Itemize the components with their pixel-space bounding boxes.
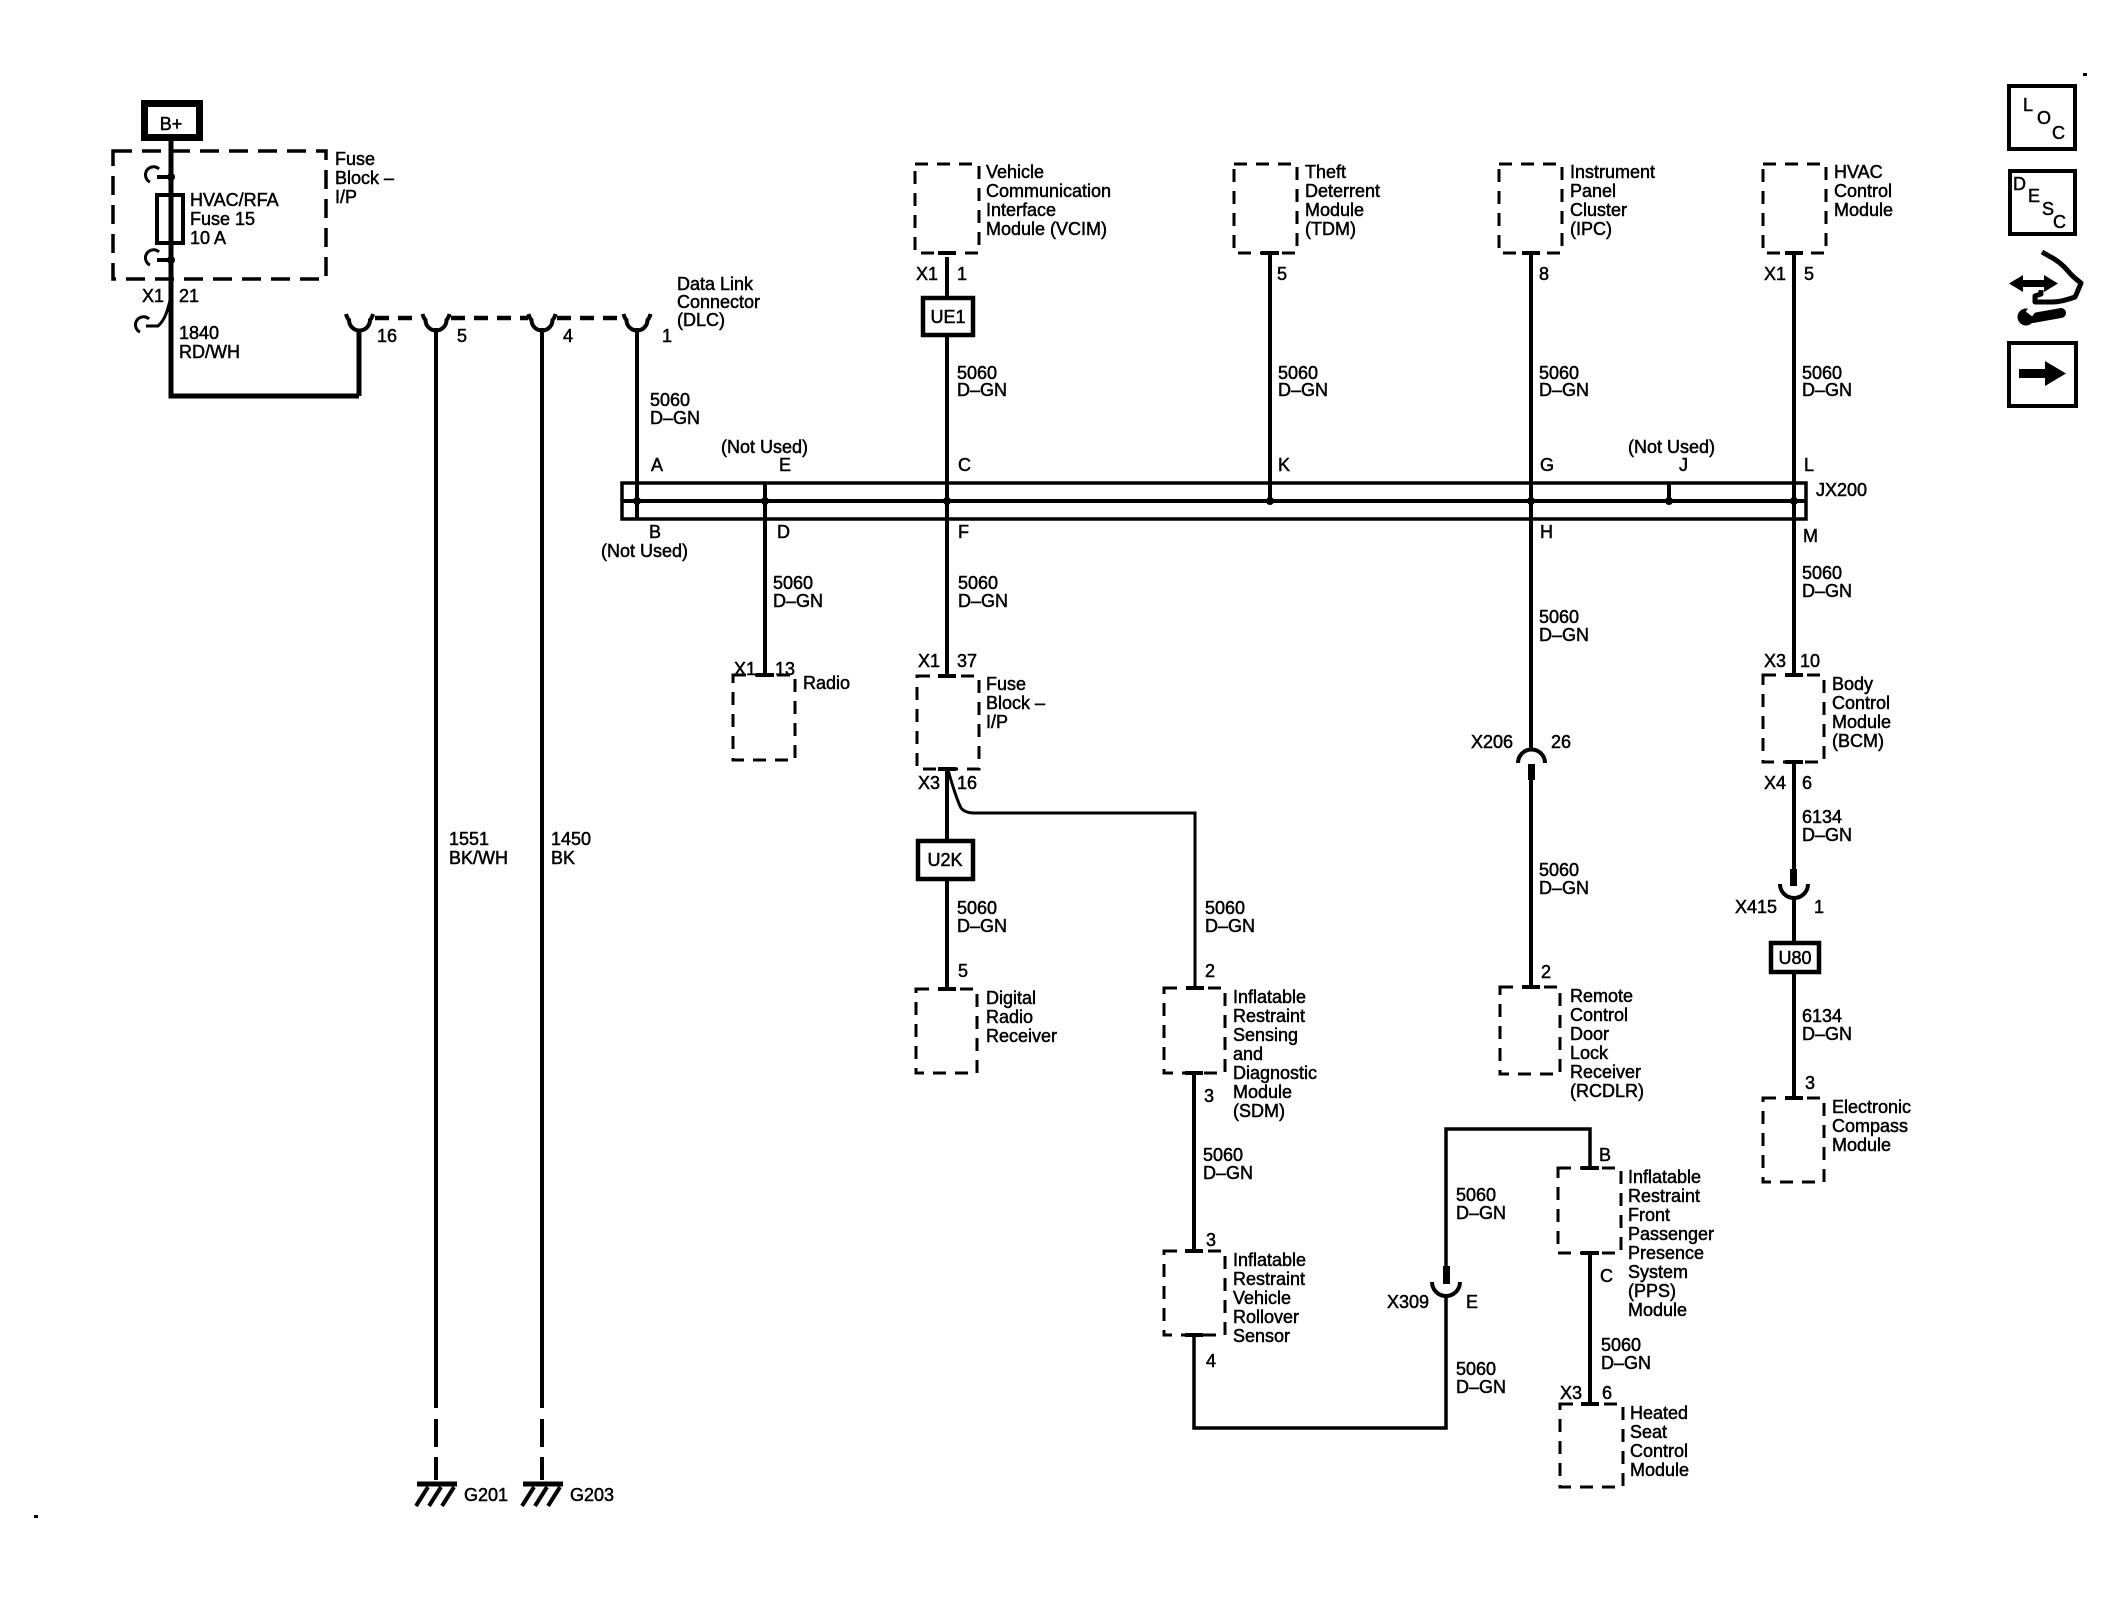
svg-text:1450: 1450 <box>551 829 591 849</box>
svg-text:5060: 5060 <box>773 573 813 593</box>
svg-text:D–GN: D–GN <box>1278 380 1328 400</box>
svg-text:X1: X1 <box>916 264 938 284</box>
svg-text:Vehicle: Vehicle <box>986 162 1044 182</box>
svg-text:Digital: Digital <box>986 988 1036 1008</box>
svg-text:Block –: Block – <box>335 168 394 188</box>
svg-text:10 A: 10 A <box>190 228 226 248</box>
svg-text:26: 26 <box>1551 732 1571 752</box>
svg-text:L: L <box>2023 95 2033 115</box>
svg-text:Door: Door <box>1570 1024 1609 1044</box>
svg-text:F: F <box>958 522 969 542</box>
svg-text:Module: Module <box>1832 712 1891 732</box>
svg-text:Front: Front <box>1628 1205 1670 1225</box>
svg-text:Module: Module <box>1630 1460 1689 1480</box>
svg-text:E: E <box>1466 1292 1478 1312</box>
svg-text:B: B <box>1599 1145 1611 1165</box>
svg-text:D–GN: D–GN <box>1203 1163 1253 1183</box>
svg-text:Lock: Lock <box>1570 1043 1609 1063</box>
svg-text:6134: 6134 <box>1802 1006 1842 1026</box>
svg-text:5: 5 <box>958 961 968 981</box>
svg-text:C: C <box>1600 1266 1613 1286</box>
svg-text:J: J <box>1679 455 1688 475</box>
svg-text:3: 3 <box>1206 1230 1216 1250</box>
svg-text:HVAC: HVAC <box>1834 162 1883 182</box>
svg-text:Presence: Presence <box>1628 1243 1704 1263</box>
svg-text:Receiver: Receiver <box>986 1026 1057 1046</box>
svg-text:BK/WH: BK/WH <box>449 848 508 868</box>
svg-text:UE1: UE1 <box>930 307 965 327</box>
svg-text:JX200: JX200 <box>1816 480 1867 500</box>
svg-text:3: 3 <box>1805 1073 1815 1093</box>
svg-text:(TDM): (TDM) <box>1305 219 1356 239</box>
svg-text:1: 1 <box>662 326 672 346</box>
svg-text:Instrument: Instrument <box>1570 162 1655 182</box>
svg-text:X1: X1 <box>1764 264 1786 284</box>
svg-text:5060: 5060 <box>650 390 690 410</box>
svg-text:5060: 5060 <box>1539 860 1579 880</box>
svg-text:5060: 5060 <box>1456 1185 1496 1205</box>
svg-text:Module (VCIM): Module (VCIM) <box>986 219 1107 239</box>
svg-text:D–GN: D–GN <box>650 408 700 428</box>
svg-text:D–GN: D–GN <box>1802 1024 1852 1044</box>
svg-text:D–GN: D–GN <box>1802 581 1852 601</box>
svg-text:D–GN: D–GN <box>1205 916 1255 936</box>
svg-text:X3: X3 <box>1560 1383 1582 1403</box>
svg-text:(BCM): (BCM) <box>1832 731 1884 751</box>
svg-text:Sensing: Sensing <box>1233 1025 1298 1045</box>
svg-text:Body: Body <box>1832 674 1873 694</box>
svg-text:D–GN: D–GN <box>1601 1353 1651 1373</box>
svg-text:D–GN: D–GN <box>1539 878 1589 898</box>
svg-text:Sensor: Sensor <box>1233 1326 1290 1346</box>
svg-text:and: and <box>1233 1044 1263 1064</box>
svg-text:Control: Control <box>1630 1441 1688 1461</box>
svg-text:A: A <box>651 455 663 475</box>
svg-text:3: 3 <box>1204 1086 1214 1106</box>
svg-text:D–GN: D–GN <box>1539 625 1589 645</box>
svg-text:1840: 1840 <box>179 323 219 343</box>
svg-text:X3: X3 <box>918 773 940 793</box>
svg-text:4: 4 <box>563 326 573 346</box>
svg-text:37: 37 <box>957 651 977 671</box>
svg-text:Theft: Theft <box>1305 162 1346 182</box>
svg-text:Heated: Heated <box>1630 1403 1688 1423</box>
svg-text:8: 8 <box>1539 264 1549 284</box>
svg-text:1: 1 <box>957 264 967 284</box>
svg-text:1551: 1551 <box>449 829 489 849</box>
svg-text:C: C <box>2052 123 2065 143</box>
svg-text:X415: X415 <box>1735 897 1777 917</box>
svg-text:B+: B+ <box>160 114 183 134</box>
svg-text:Inflatable: Inflatable <box>1233 1250 1306 1270</box>
svg-text:B: B <box>649 522 661 542</box>
svg-text:5060: 5060 <box>1203 1145 1243 1165</box>
svg-text:(Not Used): (Not Used) <box>601 541 688 561</box>
svg-text:I/P: I/P <box>986 712 1008 732</box>
svg-text:E: E <box>779 455 791 475</box>
svg-text:D–GN: D–GN <box>1456 1377 1506 1397</box>
svg-text:5060: 5060 <box>1539 607 1579 627</box>
svg-text:16: 16 <box>377 326 397 346</box>
svg-text:5060: 5060 <box>957 898 997 918</box>
svg-text:(RCDLR): (RCDLR) <box>1570 1081 1644 1101</box>
svg-text:(Not Used): (Not Used) <box>1628 437 1715 457</box>
svg-text:X3: X3 <box>1764 651 1786 671</box>
svg-text:(PPS): (PPS) <box>1628 1281 1676 1301</box>
svg-text:1: 1 <box>1814 897 1824 917</box>
svg-text:13: 13 <box>775 659 795 679</box>
svg-text:Fuse: Fuse <box>335 149 375 169</box>
svg-text:Restraint: Restraint <box>1233 1006 1305 1026</box>
svg-text:I/P: I/P <box>335 187 357 207</box>
svg-text:G201: G201 <box>464 1485 508 1505</box>
svg-text:D–GN: D–GN <box>1539 380 1589 400</box>
svg-text:E: E <box>2028 186 2040 206</box>
svg-text:C: C <box>2053 212 2066 232</box>
svg-text:Control: Control <box>1834 181 1892 201</box>
svg-text:6: 6 <box>1802 773 1812 793</box>
svg-text:X1: X1 <box>918 651 940 671</box>
svg-text:Control: Control <box>1832 693 1890 713</box>
svg-text:(SDM): (SDM) <box>1233 1101 1285 1121</box>
svg-text:D: D <box>2013 174 2026 194</box>
svg-text:U2K: U2K <box>927 850 962 870</box>
svg-text:X1: X1 <box>142 286 164 306</box>
svg-text:5060: 5060 <box>958 573 998 593</box>
svg-text:D–GN: D–GN <box>957 916 1007 936</box>
svg-text:Electronic: Electronic <box>1832 1097 1911 1117</box>
svg-text:X4: X4 <box>1764 773 1786 793</box>
svg-text:Cluster: Cluster <box>1570 200 1627 220</box>
svg-text:D–GN: D–GN <box>773 591 823 611</box>
svg-text:D–GN: D–GN <box>957 380 1007 400</box>
svg-text:(Not Used): (Not Used) <box>721 437 808 457</box>
svg-text:Module: Module <box>1834 200 1893 220</box>
svg-text:6134: 6134 <box>1802 807 1842 827</box>
svg-text:4: 4 <box>1206 1351 1216 1371</box>
svg-text:D–GN: D–GN <box>1456 1203 1506 1223</box>
svg-text:2: 2 <box>1541 962 1551 982</box>
svg-text:(IPC): (IPC) <box>1570 219 1612 239</box>
svg-text:Module: Module <box>1628 1300 1687 1320</box>
svg-text:16: 16 <box>957 773 977 793</box>
svg-text:G: G <box>1540 455 1554 475</box>
svg-text:(DLC): (DLC) <box>677 310 725 330</box>
svg-text:Communication: Communication <box>986 181 1111 201</box>
svg-text:6: 6 <box>1602 1383 1612 1403</box>
svg-text:Data Link: Data Link <box>677 274 754 294</box>
svg-text:5060: 5060 <box>1456 1359 1496 1379</box>
svg-text:5060: 5060 <box>1802 563 1842 583</box>
svg-text:RD/WH: RD/WH <box>179 342 240 362</box>
svg-text:D–GN: D–GN <box>1802 825 1852 845</box>
svg-text:C: C <box>958 455 971 475</box>
svg-text:5: 5 <box>1277 264 1287 284</box>
svg-text:Module: Module <box>1832 1135 1891 1155</box>
svg-text:Radio: Radio <box>803 673 850 693</box>
svg-text:Seat: Seat <box>1630 1422 1667 1442</box>
svg-text:Panel: Panel <box>1570 181 1616 201</box>
svg-text:D–GN: D–GN <box>958 591 1008 611</box>
svg-text:M: M <box>1803 526 1818 546</box>
svg-text:Block –: Block – <box>986 693 1045 713</box>
svg-text:Radio: Radio <box>986 1007 1033 1027</box>
svg-text:Control: Control <box>1570 1005 1628 1025</box>
svg-text:5060: 5060 <box>1601 1335 1641 1355</box>
svg-text:Passenger: Passenger <box>1628 1224 1714 1244</box>
svg-text:System: System <box>1628 1262 1688 1282</box>
svg-text:Fuse 15: Fuse 15 <box>190 209 255 229</box>
svg-text:Inflatable: Inflatable <box>1628 1167 1701 1187</box>
svg-text:5: 5 <box>1804 264 1814 284</box>
svg-text:Module: Module <box>1305 200 1364 220</box>
svg-text:G203: G203 <box>570 1485 614 1505</box>
svg-text:21: 21 <box>179 286 199 306</box>
svg-text:X309: X309 <box>1387 1292 1429 1312</box>
svg-text:L: L <box>1804 455 1814 475</box>
svg-text:O: O <box>2037 108 2051 128</box>
svg-text:Diagnostic: Diagnostic <box>1233 1063 1317 1083</box>
svg-text:2: 2 <box>1205 961 1215 981</box>
svg-text:Fuse: Fuse <box>986 674 1026 694</box>
svg-text:U80: U80 <box>1778 948 1811 968</box>
svg-text:H: H <box>1540 522 1553 542</box>
svg-text:Compass: Compass <box>1832 1116 1908 1136</box>
svg-text:D: D <box>777 522 790 542</box>
svg-text:Deterrent: Deterrent <box>1305 181 1380 201</box>
svg-text:Rollover: Rollover <box>1233 1307 1299 1327</box>
svg-text:BK: BK <box>551 848 575 868</box>
svg-text:X206: X206 <box>1471 732 1513 752</box>
svg-text:D–GN: D–GN <box>1802 380 1852 400</box>
svg-text:Receiver: Receiver <box>1570 1062 1641 1082</box>
svg-text:Module: Module <box>1233 1082 1292 1102</box>
svg-text:10: 10 <box>1800 651 1820 671</box>
svg-text:5: 5 <box>457 326 467 346</box>
svg-text:Vehicle: Vehicle <box>1233 1288 1291 1308</box>
svg-text:HVAC/RFA: HVAC/RFA <box>190 190 279 210</box>
svg-text:Restraint: Restraint <box>1233 1269 1305 1289</box>
svg-text:Inflatable: Inflatable <box>1233 987 1306 1007</box>
svg-text:5060: 5060 <box>1205 898 1245 918</box>
svg-text:X1: X1 <box>734 659 756 679</box>
svg-text:Restraint: Restraint <box>1628 1186 1700 1206</box>
svg-text:Connector: Connector <box>677 292 760 312</box>
svg-text:Interface: Interface <box>986 200 1056 220</box>
svg-text:K: K <box>1278 455 1290 475</box>
svg-text:Remote: Remote <box>1570 986 1633 1006</box>
